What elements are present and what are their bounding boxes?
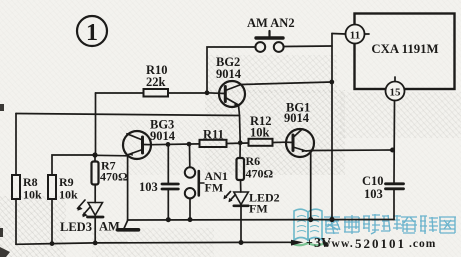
- node at ground bus: [329, 217, 334, 222]
- switch AN1 (FM): [185, 144, 228, 220]
- wire left riser x=95: [95, 93, 97, 155]
- wire switch right to x332: [284, 45, 332, 48]
- wire BG1 emitter node: [306, 150, 311, 153]
- svg-text:+: +: [306, 235, 313, 249]
- svg-text:1: 1: [86, 20, 98, 46]
- wire emitter bias line y=115 to R8: [16, 114, 240, 116]
- resistor R10: [96, 63, 208, 97]
- +3V arrowhead: [291, 240, 304, 246]
- LED3 (AM indicator): [60, 185, 120, 246]
- svg-text:FM: FM: [205, 181, 224, 195]
- svg-text:.com: .com: [409, 238, 436, 250]
- node at collector wire joint: [329, 80, 334, 85]
- node BG2 base junction: [205, 90, 210, 95]
- node cap bottom on bus: [166, 217, 171, 222]
- svg-text:10k: 10k: [250, 126, 270, 140]
- base line y=144 (BG3 base - R11 - R12 - BG1 base): [151, 143, 200, 146]
- ground symbol: [118, 221, 139, 230]
- node AN1 top: [187, 142, 192, 147]
- svg-text:15: 15: [390, 87, 402, 99]
- watermark: url: [322, 236, 436, 251]
- transistor BG1: [284, 101, 314, 158]
- scan bleed-through hatch textures: [207, 55, 337, 93]
- svg-text:C10: C10: [362, 174, 384, 188]
- svg-text:520101: 520101: [355, 236, 406, 251]
- wire BG2 emitter drop x=239.5: [239, 105, 241, 142]
- resistor R9: [48, 155, 95, 246]
- svg-text:11: 11: [350, 30, 360, 42]
- LED2 (FM indicator): [224, 191, 280, 243]
- capacitor 103: [139, 144, 178, 219]
- watermark: book logo: [290, 209, 326, 245]
- node on C10 riser: [390, 148, 395, 153]
- svg-text:FM: FM: [249, 202, 268, 216]
- svg-text:103: 103: [139, 180, 158, 194]
- svg-text:470Ω: 470Ω: [246, 167, 274, 181]
- svg-text:9014: 9014: [150, 129, 176, 143]
- node on ground bus: [308, 217, 313, 222]
- figure number circle 1: [77, 16, 107, 46]
- resistor R12: [249, 114, 287, 146]
- transistor BG2: [207, 55, 245, 107]
- svg-text:9014: 9014: [216, 67, 242, 81]
- svg-text:AM AN2: AM AN2: [247, 16, 295, 30]
- transistor BG3: [123, 118, 176, 160]
- wire vertical net x=332 (from pin11 down to ground bus): [331, 34, 333, 220]
- svg-text:10k: 10k: [59, 188, 78, 202]
- svg-text:CXA 1191M: CXA 1191M: [371, 42, 438, 56]
- resistor R11: [200, 128, 249, 148]
- resistor R6: [237, 143, 274, 192]
- wire BG2 collector to x332: [241, 82, 332, 85]
- svg-text:22k: 22k: [146, 75, 166, 89]
- node LED2 bottom on +3V rail: [239, 240, 244, 245]
- CXA1191M IC box U1: [355, 14, 455, 90]
- wire pin11 to vertical bus: [332, 33, 346, 36]
- pushbutton switch AM AN2: [247, 16, 295, 52]
- svg-text:470Ω: 470Ω: [100, 170, 128, 184]
- svg-text:LED3: LED3: [60, 220, 92, 234]
- wire BG1 emitter drop to ground bus: [310, 151, 312, 220]
- scan edge artifacts: [0, 104, 10, 257]
- wire BG1 emitter right to C10 riser: [311, 149, 394, 152]
- svg-text:3V: 3V: [314, 236, 331, 251]
- svg-text:103: 103: [364, 187, 383, 201]
- capacitor C10: [362, 174, 404, 220]
- node R6 top junction: [238, 140, 243, 145]
- node R7 top junction: [92, 152, 97, 157]
- watermark: chinese site name (stylized glyphs): [324, 214, 456, 234]
- svg-text:9014: 9014: [284, 111, 310, 125]
- +3V supply rail: [16, 242, 293, 244]
- wire pin15 riser x=394: [393, 101, 396, 183]
- pin 15: [386, 77, 405, 101]
- wire BG3 emitter drop to ground: [127, 156, 129, 220]
- wire switch left to BG2 base drop: [207, 47, 255, 93]
- wire BG3 emitter to R7 node: [95, 155, 129, 156]
- svg-text:10k: 10k: [23, 188, 42, 202]
- resistor R8: [12, 114, 42, 245]
- node AN1 bottom on bus: [188, 217, 193, 222]
- ground bus y=220: [128, 219, 394, 222]
- node cap C? top: [166, 142, 171, 147]
- resistor R7: [92, 155, 129, 185]
- pin 11: [346, 25, 370, 44]
